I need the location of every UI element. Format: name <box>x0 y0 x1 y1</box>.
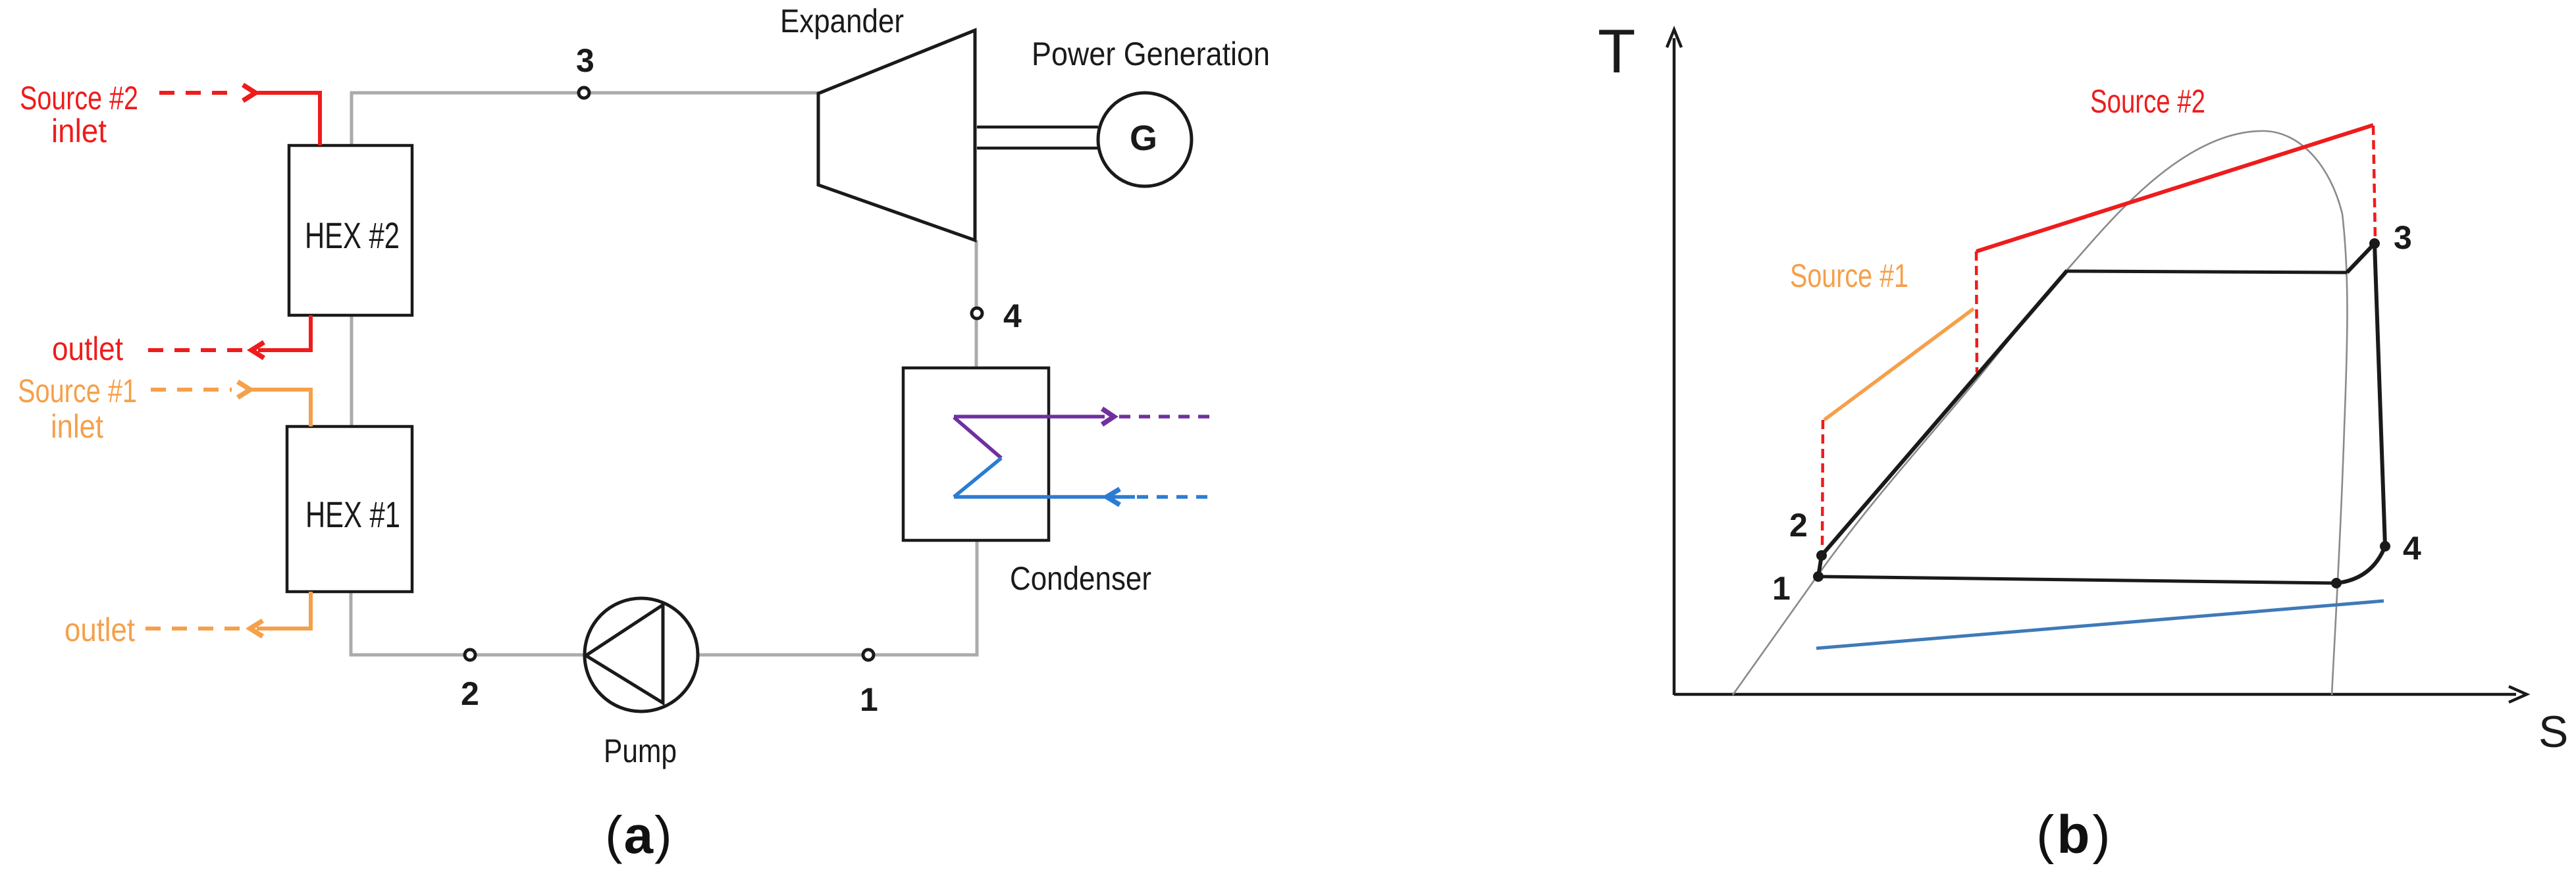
svg-text:HEX #1: HEX #1 <box>305 494 400 535</box>
shaft (double line) <box>977 126 1098 129</box>
svg-text:Source #1: Source #1 <box>18 373 137 409</box>
svg-text:2: 2 <box>461 675 479 712</box>
node 4 <box>972 308 982 319</box>
pump <box>585 598 698 711</box>
Source #1 inlet (orange, into HEX #1) <box>151 382 311 426</box>
svg-text:(b): (b) <box>2036 805 2113 865</box>
svg-text:HEX #2: HEX #2 <box>305 215 400 256</box>
coolant line (blue) <box>1816 601 2384 648</box>
condenser coolant in (blue) <box>954 458 1212 505</box>
condenser <box>903 368 1049 540</box>
svg-text:3: 3 <box>576 42 594 79</box>
svg-text:Source #2: Source #2 <box>2090 83 2205 120</box>
red dashed pinch line at source1 outlet <box>1822 420 1823 552</box>
wire condenser to expander <box>975 240 978 368</box>
Source #1 outlet (orange, out of HEX #1) <box>139 592 311 636</box>
saturation dome (gray) <box>1733 131 2348 695</box>
state point 3 <box>2369 238 2380 249</box>
svg-text:T: T <box>1598 16 1635 86</box>
svg-text:(a): (a) <box>605 806 673 864</box>
svg-text:3: 3 <box>2394 219 2412 256</box>
cycle 4 desuperheat curve <box>2336 546 2385 583</box>
svg-text:outlet: outlet <box>52 330 123 367</box>
state point 1 <box>1813 571 1824 582</box>
cycle boiling line <box>2067 271 2347 272</box>
node 1 <box>863 650 874 660</box>
svg-text:2: 2 <box>1789 507 1808 544</box>
svg-text:Expander: Expander <box>780 3 904 39</box>
svg-text:inlet: inlet <box>51 408 103 445</box>
red dashed pinch line at source2 inlet <box>2373 126 2375 240</box>
Source #2 inlet (red, into HEX #2) <box>159 85 320 145</box>
svg-text:1: 1 <box>860 681 878 718</box>
cycle condensing line 4-1 <box>1818 577 2336 583</box>
cycle 3-4 expansion line <box>2375 244 2385 546</box>
svg-text:outlet: outlet <box>65 611 135 648</box>
wire pump to condenser (bottom rail right) <box>698 540 977 655</box>
node 3 <box>579 88 589 98</box>
HEX #2 <box>289 145 412 315</box>
svg-text:G: G <box>1130 118 1157 158</box>
svg-text:Power Generation: Power Generation <box>1032 36 1270 72</box>
svg-text:Source #2: Source #2 <box>20 80 138 116</box>
svg-text:Source #1: Source #1 <box>1790 257 1908 294</box>
svg-text:Pump: Pump <box>604 733 677 769</box>
svg-text:1: 1 <box>1772 570 1791 607</box>
expander U (trapezoid) <box>818 30 975 240</box>
cycle superheat line <box>2347 244 2375 272</box>
svg-text:4: 4 <box>1003 297 1022 334</box>
red dashed pinch line at source2 outlet <box>1976 251 1977 373</box>
wire HEX #1 to pump (bottom rail left) <box>351 592 585 655</box>
cycle 2-heating line <box>1822 271 2067 555</box>
svg-text:S: S <box>2538 707 2568 757</box>
cycle 1-2 pump line <box>1818 555 1822 577</box>
node 2 <box>465 650 475 660</box>
generator G <box>1098 93 1192 186</box>
Source #1 line (orange) <box>1824 309 1974 420</box>
saturated vapor point on condensing line <box>2331 578 2342 588</box>
HEX #1 <box>287 426 412 592</box>
state point 4 <box>2380 541 2390 552</box>
T axis <box>1673 38 1676 695</box>
svg-text:4: 4 <box>2403 530 2421 567</box>
wire HEX #2 to HEX #1 <box>350 315 354 426</box>
condenser coolant out (purple) <box>954 409 1212 458</box>
state point 2 <box>1816 550 1827 561</box>
Source #2 outlet (red, out of HEX #2) <box>148 315 311 358</box>
svg-text:inlet: inlet <box>51 113 107 149</box>
svg-text:Condenser: Condenser <box>1010 560 1151 597</box>
wire top: HEX #2 to expander (node 3 line) <box>352 93 818 145</box>
Source #2 line (red) <box>1976 125 2373 251</box>
S axis <box>1674 693 2516 696</box>
